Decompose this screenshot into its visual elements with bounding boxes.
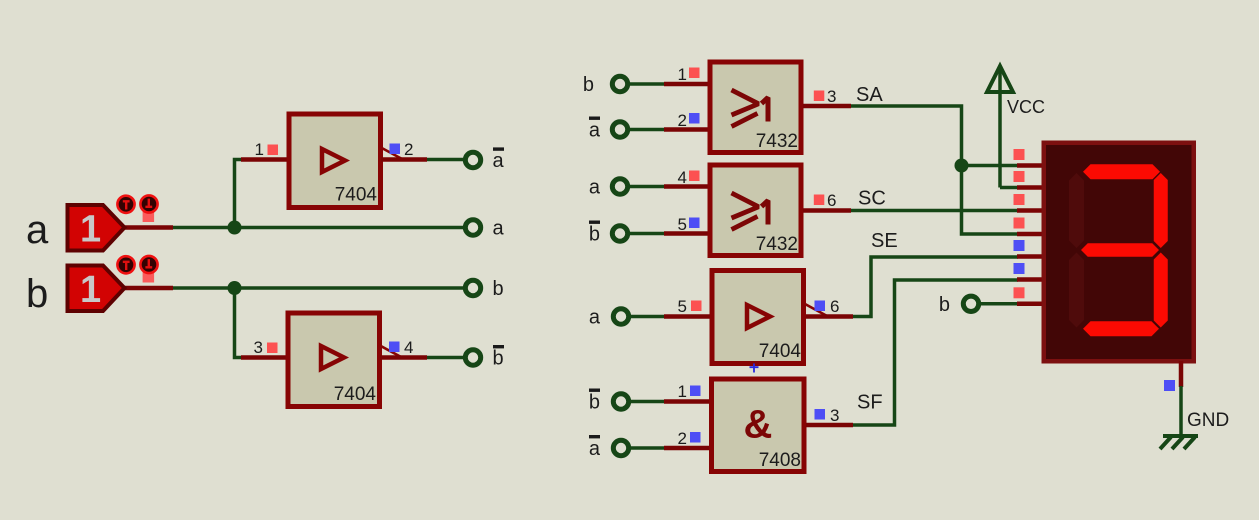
svg-text:b: b — [939, 294, 950, 316]
U5 pin 6 state square (blue) — [815, 301, 826, 312]
U1 output inversion slash — [380, 147, 403, 160]
U5 pin 5 state square (red) — [691, 301, 702, 312]
U4 pin 6 state square (red) — [814, 195, 825, 206]
U2 pin 3 label — [254, 338, 263, 357]
segment A (lit) — [1083, 164, 1160, 179]
svg-text:&: & — [744, 403, 773, 447]
wire from node B down to U2 pin 3 — [235, 288, 287, 358]
node B junction — [228, 281, 242, 295]
node A junction — [228, 221, 242, 235]
display pin B state square (red) — [1014, 171, 1025, 182]
U3 pin 3 state square (red) — [814, 91, 825, 102]
net label SE — [871, 230, 898, 252]
svg-text:7408: 7408 — [759, 450, 801, 471]
terminal abar — [465, 152, 480, 167]
U4 pin 5 state square (blue) — [689, 218, 700, 229]
terminal abar (AND input) — [613, 440, 628, 455]
terminal b label — [583, 74, 594, 96]
svg-text:GND: GND — [1187, 410, 1229, 431]
net label SA — [856, 84, 883, 106]
svg-text:1: 1 — [80, 269, 101, 311]
7-segment display body — [1044, 143, 1194, 362]
segment D (lit) — [1083, 321, 1159, 336]
U4 pin 5 label — [678, 215, 687, 234]
U2 output inversion slash — [379, 345, 402, 358]
wire a (logicstate A to terminal a) — [124, 225, 464, 230]
svg-text:3: 3 — [827, 87, 836, 106]
svg-text:3: 3 — [254, 338, 263, 357]
inverter U5 7404 — [712, 271, 804, 364]
display pin G state square (red) — [1014, 287, 1025, 298]
svg-text:a: a — [493, 150, 505, 172]
svg-text:a: a — [493, 218, 505, 240]
wire b (logicstate B to terminal b) — [124, 286, 464, 291]
power VCC — [987, 66, 1018, 188]
terminal bbar label — [589, 221, 600, 246]
segment C (lit) — [1154, 253, 1168, 328]
display pin F state square (blue) — [1014, 263, 1025, 274]
terminal b (OR1 input) — [612, 76, 627, 91]
terminal b label — [939, 294, 950, 316]
display pin A state square (red) — [1014, 149, 1025, 160]
U1 pin 1 state square (red) — [268, 145, 279, 156]
wire bbar to U6 pin 1 — [630, 400, 710, 404]
display pin E state square (blue) — [1014, 240, 1025, 251]
U6 pin 3 state square (blue) — [815, 409, 826, 420]
U4 pin 4 label — [678, 168, 687, 187]
svg-text:7432: 7432 — [756, 234, 798, 255]
svg-text:6: 6 — [830, 297, 839, 316]
U4 pin 6 label — [827, 191, 836, 210]
segment B (lit) — [1154, 173, 1168, 248]
segment F (unlit) — [1069, 173, 1084, 248]
svg-text:SC: SC — [858, 188, 886, 210]
svg-text:b: b — [493, 278, 504, 300]
U6 pin 1 label — [678, 382, 687, 401]
terminal bbar (AND input) — [613, 394, 628, 409]
net label SC — [858, 188, 886, 210]
terminal b — [465, 280, 480, 295]
svg-text:1: 1 — [678, 65, 687, 84]
node a label — [26, 208, 49, 252]
svg-text:2: 2 — [678, 429, 687, 448]
svg-text:a: a — [589, 307, 601, 329]
U6 pin 2 state square (blue) — [690, 432, 701, 443]
svg-text:VCC: VCC — [1007, 97, 1045, 117]
svg-text:SF: SF — [857, 392, 883, 414]
display pin D state square (red) — [1014, 218, 1025, 229]
display pin C state square (red) — [1014, 194, 1025, 205]
svg-text:b: b — [493, 348, 504, 370]
svg-text:b: b — [583, 74, 594, 96]
U5 pin 6 label — [830, 297, 839, 316]
net label SF — [857, 392, 883, 414]
terminal a (U5 input) — [613, 309, 628, 324]
svg-text:a: a — [589, 438, 601, 460]
svg-text:4: 4 — [404, 338, 413, 357]
display pin stubs — [1017, 166, 1043, 304]
U5 output inversion slash — [805, 304, 828, 317]
svg-text:SE: SE — [871, 230, 898, 252]
U2 pin 3 state square (red) — [267, 343, 278, 354]
svg-text:b: b — [589, 392, 600, 414]
U6 pin 3 label — [830, 406, 839, 425]
terminal bbar — [465, 350, 480, 365]
logicstate B (input b, value 1) — [68, 256, 158, 311]
terminal abar label — [589, 435, 601, 460]
terminal a label — [589, 307, 601, 329]
U3 pin 1 state square (red) — [689, 68, 700, 79]
terminal a label — [589, 177, 601, 199]
junction on SA net — [955, 159, 969, 173]
terminal bbar label — [493, 345, 505, 370]
U2 pin 4 state square (blue) — [389, 342, 400, 353]
wire from node A up to U1 pin 1 — [235, 160, 288, 228]
U3 pin 2 state square (blue) — [689, 113, 700, 124]
wire b to display pin G — [980, 302, 1018, 306]
U3 pin 3 label — [827, 87, 836, 106]
svg-text:b: b — [26, 272, 48, 316]
inverter U2 7404 (bottom left) — [288, 313, 380, 407]
U2 pin 4 label — [404, 338, 413, 357]
svg-text:7404: 7404 — [334, 384, 377, 405]
U1 output wire to terminal abar — [381, 157, 464, 162]
terminal b label — [493, 278, 504, 300]
wire SF: U6 output to display pin F — [806, 280, 1018, 425]
svg-text:7404: 7404 — [335, 185, 378, 206]
wire to ground — [1179, 386, 1183, 435]
node b label — [26, 272, 48, 316]
svg-text:4: 4 — [678, 168, 687, 187]
svg-text:2: 2 — [404, 140, 413, 159]
svg-text:2: 2 — [678, 111, 687, 130]
terminal a — [465, 220, 480, 235]
svg-text:a: a — [589, 177, 601, 199]
terminal a (OR2 input) — [612, 179, 627, 194]
wire SA: U3 output to display pin A and D — [803, 106, 1018, 234]
terminal abar label — [493, 147, 505, 172]
terminal bbar label — [589, 389, 600, 414]
svg-text:7404: 7404 — [759, 341, 802, 362]
wire SC: U4 output to display pin C — [803, 208, 1018, 213]
terminal abar (OR1 input) — [612, 122, 627, 137]
U5 origin marker — [750, 364, 759, 373]
wire b to U3 pin 1 — [629, 82, 710, 86]
OR gate U3 7432 — [710, 62, 801, 153]
U6 pin 2 label — [678, 429, 687, 448]
wire bbar to U4 pin 5 — [629, 232, 710, 236]
svg-text:6: 6 — [827, 191, 836, 210]
svg-text:7432: 7432 — [756, 131, 798, 152]
wire a to U4 pin 4 — [629, 185, 710, 189]
terminal a label — [493, 218, 505, 240]
U6 pin 1 state square (blue) — [690, 386, 701, 397]
AND gate U6 7408 — [712, 379, 805, 472]
GND label — [1187, 410, 1229, 431]
svg-text:1: 1 — [80, 209, 101, 251]
wire abar to U3 pin 2 — [629, 128, 710, 132]
U3 pin 1 label — [678, 65, 687, 84]
U3 pin 2 label — [678, 111, 687, 130]
wire SE: U5 output to display pin E — [806, 257, 1018, 317]
terminal bbar (OR2 input) — [612, 226, 627, 241]
terminal b (segment G input) — [963, 296, 978, 311]
U1 pin 2 state square (blue) — [390, 144, 401, 155]
svg-text:5: 5 — [678, 297, 687, 316]
segment G (lit) — [1081, 243, 1159, 257]
svg-text:a: a — [589, 120, 601, 142]
U5 pin 5 label — [678, 297, 687, 316]
svg-text:1: 1 — [255, 140, 264, 159]
inverter U1 7404 (top left) — [289, 114, 381, 208]
ground — [1160, 436, 1198, 449]
svg-text:a: a — [26, 208, 49, 252]
segment E (unlit) — [1069, 253, 1084, 328]
U1 pin 2 label — [404, 140, 413, 159]
wire a to U5 pin 5 — [630, 315, 710, 319]
logicstate A (input a, value 1) — [68, 195, 158, 250]
VCC label — [1007, 97, 1045, 117]
svg-text:SA: SA — [856, 84, 883, 106]
OR gate U4 7432 — [710, 165, 801, 256]
display common pin state square (blue) — [1164, 380, 1175, 391]
svg-text:b: b — [589, 224, 600, 246]
svg-text:3: 3 — [830, 406, 839, 425]
U4 pin 4 state square (red) — [689, 171, 700, 182]
display common pin stub — [1179, 361, 1184, 387]
U1 pin 1 label — [255, 140, 264, 159]
U2 output wire to terminal bbar — [380, 355, 464, 360]
wire abar to U6 pin 2 — [630, 446, 710, 450]
svg-text:5: 5 — [678, 215, 687, 234]
terminal abar label — [589, 117, 601, 142]
svg-text:1: 1 — [678, 382, 687, 401]
